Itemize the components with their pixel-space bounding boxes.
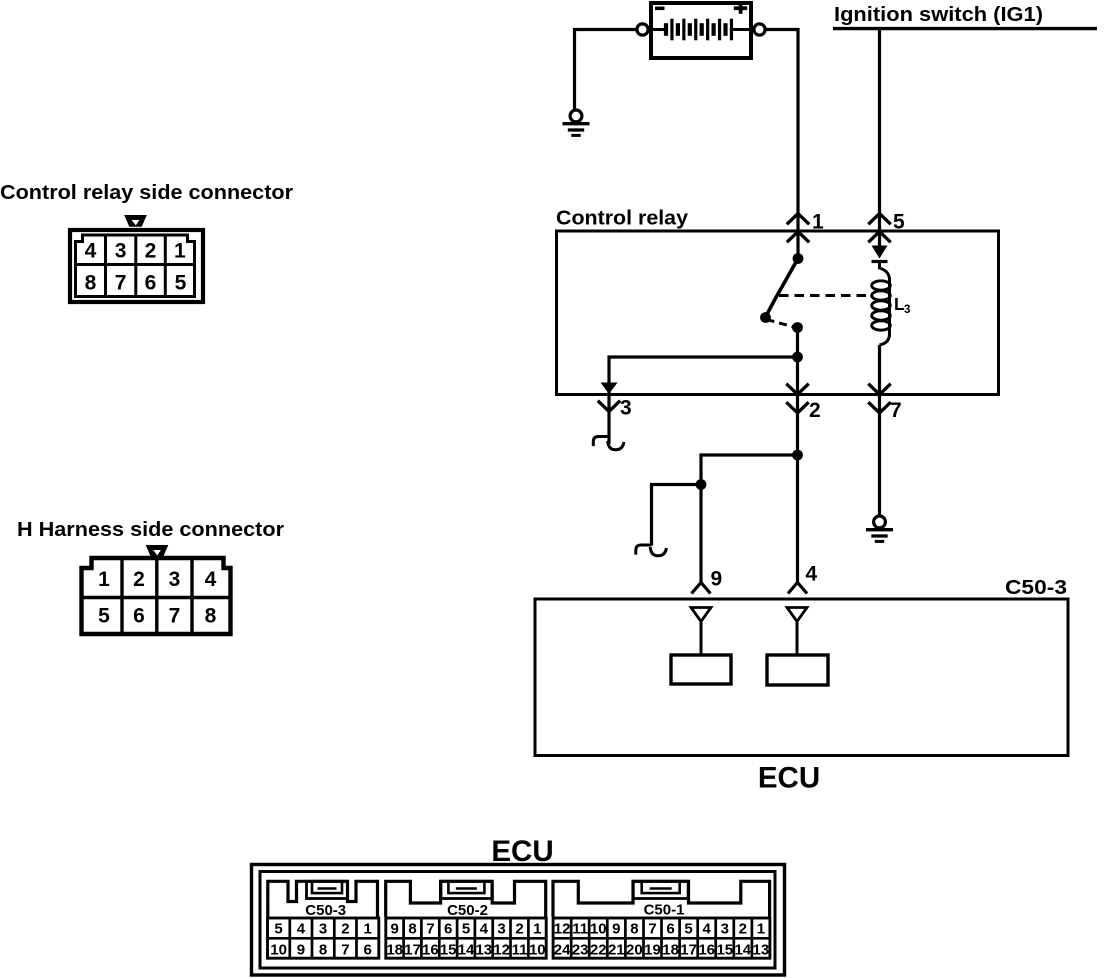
wire battery negative to ground bbox=[575, 30, 637, 111]
wire junction B to ECU pin 9 bbox=[699, 485, 702, 583]
svg-text:13: 13 bbox=[753, 941, 770, 958]
svg-text:4: 4 bbox=[703, 920, 712, 937]
svg-text:11: 11 bbox=[512, 941, 528, 958]
control relay side connector body bbox=[70, 230, 203, 302]
svg-text:2: 2 bbox=[145, 240, 157, 263]
svg-text:C50-2: C50-2 bbox=[447, 902, 488, 919]
svg-text:ECU: ECU bbox=[758, 762, 820, 795]
svg-text:4: 4 bbox=[480, 920, 489, 937]
svg-text:2: 2 bbox=[739, 920, 747, 937]
wire hook (pin 3, continues) bbox=[593, 437, 624, 450]
svg-text:15: 15 bbox=[716, 941, 733, 958]
svg-text:5: 5 bbox=[274, 920, 282, 937]
control relay side connector pin numbers bbox=[85, 240, 187, 295]
wire junction A to junction B bbox=[701, 455, 798, 485]
svg-text:7: 7 bbox=[341, 941, 349, 958]
svg-text:1: 1 bbox=[174, 240, 186, 263]
svg-text:8: 8 bbox=[205, 605, 217, 628]
svg-text:3: 3 bbox=[115, 240, 127, 263]
connector C50-3 profile bbox=[268, 881, 378, 917]
svg-text:7: 7 bbox=[426, 920, 434, 937]
svg-text:17: 17 bbox=[680, 941, 697, 958]
svg-text:24: 24 bbox=[554, 941, 571, 958]
ECU pin 4 terminal bbox=[788, 583, 807, 594]
pin 1 terminal chevrons bbox=[787, 214, 809, 243]
svg-text:16: 16 bbox=[698, 941, 715, 958]
connector C50-2 profile bbox=[386, 881, 546, 917]
svg-text:14: 14 bbox=[458, 941, 475, 958]
relay switch dashed throw bbox=[767, 320, 797, 328]
svg-text:10: 10 bbox=[529, 941, 546, 958]
wire pin 2 down bbox=[796, 395, 799, 456]
ECU stub (pin 4) bbox=[796, 622, 799, 656]
ground G1 (battery negative) bbox=[563, 110, 590, 135]
svg-text:5: 5 bbox=[684, 920, 692, 937]
connector marker (control relay side) bbox=[124, 215, 147, 227]
svg-text:C50-1: C50-1 bbox=[644, 902, 685, 919]
svg-text:3: 3 bbox=[169, 568, 181, 591]
svg-text:20: 20 bbox=[626, 941, 643, 958]
ECU connector outer housing bbox=[252, 865, 785, 976]
svg-text:10: 10 bbox=[590, 920, 607, 937]
C50-2 pin cells bbox=[386, 918, 546, 958]
relay coil arrow (direction into L3) bbox=[872, 246, 888, 262]
svg-text:Control relay: Control relay bbox=[556, 207, 689, 230]
svg-text:11: 11 bbox=[572, 920, 588, 937]
svg-text:7: 7 bbox=[890, 399, 902, 422]
svg-text:8: 8 bbox=[408, 920, 416, 937]
label L3 bbox=[894, 294, 910, 316]
svg-text:14: 14 bbox=[734, 941, 751, 958]
svg-text:3: 3 bbox=[497, 920, 505, 937]
svg-text:4: 4 bbox=[297, 920, 306, 937]
svg-text:1: 1 bbox=[98, 568, 110, 591]
relay switch pivot contact bbox=[760, 312, 771, 323]
svg-text:1: 1 bbox=[364, 920, 372, 937]
svg-text:18: 18 bbox=[386, 941, 403, 958]
svg-text:6: 6 bbox=[364, 941, 372, 958]
svg-text:2: 2 bbox=[341, 920, 349, 937]
svg-text:C50-3: C50-3 bbox=[1005, 576, 1067, 599]
svg-text:2: 2 bbox=[515, 920, 523, 937]
wire coil to pin 7 bbox=[878, 345, 881, 394]
svg-text:5: 5 bbox=[893, 211, 905, 234]
pin 3 direction arrow bbox=[601, 383, 618, 395]
svg-text:9: 9 bbox=[297, 941, 305, 958]
svg-text:3: 3 bbox=[904, 304, 910, 316]
svg-text:12: 12 bbox=[493, 941, 510, 958]
svg-text:12: 12 bbox=[554, 920, 571, 937]
svg-text:9: 9 bbox=[391, 920, 399, 937]
wire lower contact to pin 2 bbox=[796, 328, 799, 395]
wire branch to pin 3 bbox=[609, 357, 798, 395]
wire branch to hook (left) bbox=[652, 485, 702, 546]
ECU pin 9 terminal bbox=[692, 583, 711, 594]
svg-text:8: 8 bbox=[630, 920, 638, 937]
svg-text:18: 18 bbox=[662, 941, 679, 958]
svg-text:3: 3 bbox=[721, 920, 729, 937]
pin 3 terminal chevrons bbox=[598, 401, 620, 412]
H harness side connector pin numbers bbox=[98, 568, 217, 628]
svg-text:8: 8 bbox=[85, 272, 97, 295]
svg-text:4: 4 bbox=[85, 240, 97, 263]
junction node B bbox=[696, 479, 707, 490]
connector C50-1 profile bbox=[553, 881, 770, 917]
ECU stub (pin 9) bbox=[700, 622, 703, 656]
wire pin 7 to ground bbox=[878, 395, 881, 517]
svg-text:16: 16 bbox=[422, 941, 439, 958]
svg-text:4: 4 bbox=[806, 563, 818, 586]
svg-text:2: 2 bbox=[809, 399, 821, 422]
svg-text:5: 5 bbox=[175, 272, 187, 295]
svg-text:5: 5 bbox=[462, 920, 470, 937]
C50-3 pin cells bbox=[268, 918, 379, 958]
svg-text:22: 22 bbox=[590, 941, 607, 958]
svg-text:21: 21 bbox=[608, 941, 625, 958]
svg-text:6: 6 bbox=[444, 920, 452, 937]
junction node (pin2 / pin3 branch) bbox=[792, 352, 803, 363]
svg-text:7: 7 bbox=[169, 605, 181, 628]
svg-text:3: 3 bbox=[620, 397, 632, 420]
svg-text:6: 6 bbox=[133, 605, 145, 628]
dashed actuation line to coil bbox=[779, 294, 868, 297]
svg-text:10: 10 bbox=[270, 941, 287, 958]
svg-text:23: 23 bbox=[572, 941, 589, 958]
battery B1 bbox=[637, 2, 765, 58]
svg-text:5: 5 bbox=[98, 605, 110, 628]
relay switch fixed contact (top) bbox=[793, 253, 804, 264]
relay switch arm bbox=[766, 259, 799, 318]
svg-text:19: 19 bbox=[644, 941, 661, 958]
wire hook (left branch, continues) bbox=[636, 545, 667, 556]
H harness side connector body bbox=[82, 558, 231, 634]
pin 2 terminal chevrons bbox=[786, 384, 808, 413]
pin 5 terminal chevrons bbox=[868, 214, 890, 243]
svg-text:Control relay side connector: Control relay side connector bbox=[0, 181, 293, 204]
svg-text:3: 3 bbox=[319, 920, 327, 937]
svg-text:15: 15 bbox=[440, 941, 457, 958]
C50-1 pin cells bbox=[553, 918, 770, 958]
svg-text:6: 6 bbox=[666, 920, 674, 937]
svg-text:9: 9 bbox=[711, 568, 723, 591]
ECU input triangle (pin 9) bbox=[691, 608, 711, 622]
ECU internal block (pin 4) bbox=[767, 655, 828, 685]
ECU input triangle (pin 4) bbox=[787, 608, 807, 622]
svg-text:2: 2 bbox=[133, 568, 145, 591]
connector marker (H harness side) bbox=[146, 545, 169, 557]
svg-text:1: 1 bbox=[757, 920, 765, 937]
wire pin 3 stub bbox=[607, 395, 610, 445]
svg-text:17: 17 bbox=[404, 941, 421, 958]
wire battery positive to relay pin 1 bbox=[766, 30, 799, 259]
svg-text:13: 13 bbox=[475, 941, 492, 958]
svg-text:7: 7 bbox=[115, 272, 127, 295]
junction node A bbox=[792, 450, 803, 461]
relay switch lower contact bbox=[792, 322, 803, 333]
svg-text:H Harness side connector: H Harness side connector bbox=[17, 518, 284, 541]
control relay box bbox=[557, 231, 999, 395]
ECU internal block (pin 9) bbox=[671, 655, 731, 684]
wire ignition switch to relay pin 5 bbox=[878, 30, 881, 246]
svg-text:4: 4 bbox=[205, 568, 217, 591]
svg-text:1: 1 bbox=[533, 920, 541, 937]
wire ignition switch bus bbox=[833, 27, 1097, 30]
svg-text:C50-3: C50-3 bbox=[305, 902, 346, 919]
svg-text:1: 1 bbox=[812, 211, 824, 234]
svg-text:Ignition switch (IG1): Ignition switch (IG1) bbox=[834, 3, 1043, 26]
relay coil L3 bbox=[872, 262, 891, 346]
wire junction A to ECU pin 4 bbox=[796, 455, 799, 582]
svg-text:7: 7 bbox=[648, 920, 656, 937]
svg-text:6: 6 bbox=[145, 272, 157, 295]
pin 7 terminal chevrons bbox=[868, 384, 890, 413]
svg-text:9: 9 bbox=[612, 920, 620, 937]
ECU box bbox=[535, 599, 1068, 756]
svg-text:8: 8 bbox=[319, 941, 327, 958]
ground G2 (pin 7) bbox=[866, 516, 893, 541]
